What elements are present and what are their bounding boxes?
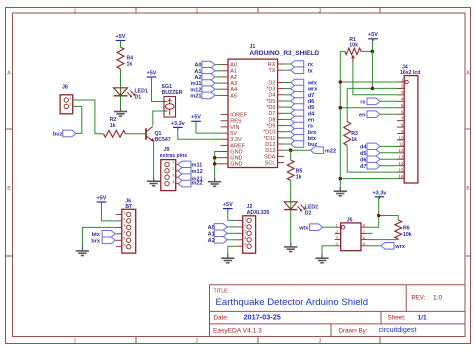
power +3.3v (J1 3.3V pin) [171,121,186,130]
svg-text:en: en [359,112,366,118]
svg-text:buz: buz [53,132,63,138]
potentiometer R1 [345,37,361,62]
svg-text:d4: d4 [308,111,315,117]
resistor R6 [395,220,412,239]
net flag A2 (J2) [208,237,228,244]
svg-text:btx: btx [92,232,101,238]
connector J6 BT [122,199,136,254]
svg-text:BC547: BC547 [155,137,171,143]
svg-text:16: 16 [399,174,404,179]
LED D2 [284,202,318,217]
svg-text:+5V: +5V [223,202,233,208]
transistor Q1 [146,127,171,143]
J9 pin2 stub + net flag m12 [176,168,203,176]
svg-text:1.0: 1.0 [433,295,442,302]
LED D1 [114,88,148,101]
net flag tx (J1 right) [284,67,314,74]
power +5V (R4) [116,34,126,43]
net flag d5 (J4) [360,150,380,157]
svg-text:1k: 1k [351,137,357,143]
power +5V (LCD) [368,32,378,41]
net flag d7 (J4) [360,162,380,169]
svg-text:13: 13 [399,155,404,160]
svg-text:wrx: wrx [394,244,406,250]
J4 pin stubs and numbers [397,77,404,179]
svg-text:circuitdigest: circuitdigest [379,325,417,334]
net flag d4 (J1 right) [284,110,315,117]
svg-text:D2: D2 [268,80,275,86]
svg-text:tx: tx [308,68,314,74]
net flag d4 (J4) [360,143,380,150]
ground (LED2) [290,243,292,246]
svg-text:A: A [466,71,470,77]
ground (J5 pin4) [321,254,323,257]
net flag buz (J1 right) [284,141,318,148]
wire Q1 emitter to ground [153,141,155,180]
wire junction to J5 pin8 [367,216,379,228]
net flag A1 (J1 left) [194,68,220,75]
power +5V (buzzer) [147,71,157,80]
wire buzzer pin2 to Q1 collector [153,111,164,126]
ground (Q1 emitter) [153,177,155,180]
net flag m22 (D13) [310,147,336,154]
svg-text:14: 14 [399,161,404,166]
svg-text:A4: A4 [230,87,237,93]
svg-text:AREF: AREF [230,143,245,149]
svg-text:1: 1 [74,8,77,14]
svg-text:A0: A0 [194,63,201,69]
net flag buz [53,130,76,138]
svg-text:EasyEDA V4.1.3: EasyEDA V4.1.3 [213,327,262,334]
svg-text:5V: 5V [230,131,237,137]
svg-text:+5V: +5V [368,32,378,38]
J5 pin stubs [335,227,367,246]
wire R4 to LED1 [120,69,122,96]
svg-text:d6: d6 [308,99,315,105]
svg-text:A1: A1 [194,69,201,75]
wire J8 pin1 to R2 [73,100,104,134]
svg-text:1k: 1k [127,62,133,68]
svg-text:3: 3 [319,338,322,344]
svg-text:1k: 1k [296,175,302,181]
svg-text:m11: m11 [191,81,202,87]
wire R5 to LED2 [290,181,292,210]
ground (J6) [81,247,83,250]
svg-text:D1: D1 [135,95,142,101]
svg-text:SDA: SDA [264,154,276,160]
svg-text:BT: BT [125,204,133,210]
svg-text:+5V: +5V [147,71,157,77]
net flag d5 (J1 right) [284,104,314,111]
wire J5 pin7 stub [367,232,373,234]
wire J2 pin5 to ground [228,246,237,257]
resistor R5 [287,160,302,181]
svg-text:SCL: SCL [265,160,276,166]
wire +3.3v down to junction [378,197,380,216]
GND rail vertical [339,51,341,190]
svg-text:A: A [7,71,11,77]
svg-text:D7: D7 [268,111,275,117]
net flag A2 (J1 left) [194,74,220,81]
svg-text:2: 2 [196,338,199,344]
J1 left pin stubs and names [221,63,248,168]
svg-text:B: B [466,186,470,192]
svg-text:J1: J1 [249,44,255,50]
wire +3.3v to J1 3.3V [178,127,221,139]
svg-text:m21: m21 [190,94,201,100]
wire J5 pin5 to wrx flag [367,245,381,247]
svg-text:+5V: +5V [97,196,107,202]
svg-text:A2: A2 [194,75,201,81]
svg-text:d5: d5 [360,151,367,157]
resistor R4 [117,47,133,69]
J9 pin1 stub + net flag m11 [176,161,203,168]
wire junction to R6 top [379,216,399,221]
wire R1 left to GND rail [340,50,345,52]
net flag rs (J1 right) [284,122,313,129]
svg-text:wrx: wrx [307,87,319,93]
svg-text:Sheet:: Sheet: [388,315,406,322]
svg-text:VIN: VIN [230,125,239,131]
svg-text:*D3: *D3 [266,87,275,93]
svg-text:1: 1 [74,338,77,344]
svg-text:IOREF: IOREF [230,113,247,119]
svg-text:B: B [7,186,11,192]
net flag rs (J4 pin4) [360,98,380,105]
buzzer SG1 [162,84,183,117]
junction dot (R1/+5V) [371,50,375,54]
ground (J1) [214,178,216,181]
svg-text:brx: brx [91,239,101,245]
svg-text:11: 11 [399,142,404,147]
svg-text:3.3V: 3.3V [230,137,242,143]
svg-text:RES: RES [230,119,242,125]
svg-text:J5: J5 [347,217,353,223]
net flag wrx (J5 pin5) [381,243,406,251]
net flag m12 (J1 left) [190,86,220,93]
ground (J2) [227,254,229,257]
svg-text:2017-03-25: 2017-03-25 [244,313,281,322]
wire R2 to Q1 base [126,133,146,135]
svg-text:d5: d5 [308,105,315,111]
svg-text:Drawn By:: Drawn By: [339,327,368,334]
svg-text:m22: m22 [325,148,336,154]
connector J8 [60,85,73,114]
wire J4 pin5 (GND) [340,107,397,109]
svg-text:ADXL335: ADXL335 [247,210,270,216]
svg-text:GND: GND [230,149,242,155]
svg-text:en: en [308,118,315,124]
svg-text:Date:: Date: [214,315,229,322]
net flag wtx (J5 pin1) [298,224,323,231]
wire J4 pin16 (GND) [340,178,397,180]
power +3.3v (J5) [372,191,387,200]
net flag d6 (J4) [360,156,380,163]
wire J5 pin4 to ground [322,246,335,258]
svg-text:m12: m12 [192,169,203,175]
svg-text:m12: m12 [190,87,201,93]
connector J2 ADXL335 [243,204,270,253]
svg-text:A0: A0 [230,63,237,69]
wire +5V to J2 pin1 [228,209,237,221]
wire +5V to buzzer pin1 [152,77,165,102]
svg-text:A5: A5 [230,93,237,99]
svg-text:m11: m11 [192,163,203,169]
title block [210,285,466,337]
wire R6 bottom to J5 pin6 [367,238,398,241]
power +5V (J1 5V pin) [191,115,201,124]
wire +5V to R4 [120,41,122,48]
net flag A0 (J2) [208,224,228,231]
svg-text:BUZZER: BUZZER [162,90,183,96]
svg-text:ARDUINO_R3_SHIELD: ARDUINO_R3_SHIELD [249,50,319,57]
svg-text:+3.3v: +3.3v [372,191,387,197]
svg-text:2: 2 [196,8,199,14]
ground (LCD) [339,187,341,190]
junction dots GND column [213,156,217,160]
svg-text:+3.3v: +3.3v [171,121,186,127]
svg-text:*D5: *D5 [266,99,275,105]
J2 pin stubs [237,220,243,246]
IC J5 [335,217,365,250]
ground (LED1) [120,108,122,111]
net flag btx (J1 right) [284,135,317,142]
power +5V (J6) [97,196,107,205]
svg-text:Earthquake Detector Arduino Sh: Earthquake Detector Arduino Shield [216,297,369,308]
wire J8 pin2 to buz flag [73,106,82,133]
J1 right pin stubs and names [263,62,284,166]
wire +5V down to R1 junction [371,39,373,52]
svg-text:3: 3 [319,8,322,14]
svg-text:10k: 10k [403,232,412,238]
IC J1 ARDUINO_R3_SHIELD [228,44,319,168]
svg-text:rs: rs [360,99,365,105]
svg-text:brx: brx [308,130,318,136]
net flag en (J1 right) [284,116,315,123]
connector J9 extras pins [160,147,188,191]
svg-text:RX: RX [268,62,276,68]
svg-text:D2: D2 [305,211,312,217]
net flag brx (J1 right) [284,128,317,135]
svg-text:wtx: wtx [307,81,318,87]
svg-text:wtx: wtx [298,225,309,231]
svg-text:*D9: *D9 [266,124,275,130]
J9 pin4 stub + net flag m22 [176,180,203,187]
svg-text:10k: 10k [349,43,358,49]
wire R1 wiper to J4 pin3 [353,62,397,95]
svg-text:extras pins: extras pins [160,153,188,159]
resistor R3 [344,122,358,146]
svg-text:*D6: *D6 [266,105,275,111]
junction dot (+3.3v / J5 / R6) [377,214,381,218]
svg-text:btx: btx [308,136,317,142]
svg-text:D4: D4 [268,93,275,99]
svg-text:*D11: *D11 [264,136,276,142]
svg-text:GND: GND [230,156,242,162]
svg-text:REV:: REV: [412,296,426,302]
net flag wrx (J1 right) [284,85,318,92]
connector J4 16x2 lcd [400,65,420,183]
svg-text:GND: GND [230,162,242,168]
power +5V (J2) [223,202,233,211]
svg-text:16x2 lcd: 16x2 lcd [400,70,420,76]
svg-text:TX: TX [268,68,275,74]
svg-text:A2: A2 [230,75,237,81]
svg-text:D13: D13 [265,148,275,154]
wire D13 down to R5 [290,150,292,160]
net flag en (J4 pin6) [359,111,380,118]
wire R3 bottom to J4 pin15 [347,146,397,173]
J9 pin3 stub + net flag m21 [176,174,203,182]
svg-text:rx: rx [308,62,314,68]
wire J6 pin3 to ground [82,227,115,250]
wire LED2 to ground [290,210,292,247]
wire R1 right to +5V [361,50,372,52]
svg-text:12: 12 [399,148,404,153]
net flag m21 (J1 left) [190,92,220,99]
svg-text:A1: A1 [230,69,237,75]
svg-text:rs: rs [308,124,313,130]
title block text [213,289,442,335]
svg-text:A2: A2 [208,238,215,244]
svg-text:m22: m22 [192,180,203,186]
net flag rx (J1 right) [284,61,314,68]
svg-text:d7: d7 [308,93,315,99]
wire +5V vertical to J4 pin2 [371,51,373,88]
svg-text:J8: J8 [62,85,68,91]
wire J4 pin1 [340,81,397,83]
net flag A1 (J2) [208,230,228,237]
svg-text:1/1: 1/1 [418,315,427,322]
net flag A0 (J1 left) [194,61,220,68]
net flag d7 (J1 right) [284,92,314,99]
wire R3 top to +5V row [346,88,348,121]
svg-text:d6: d6 [360,157,367,163]
wire J4 pin2 (+5V) [347,87,397,89]
wire LED1 to ground [120,96,122,111]
net flag d6 (J1 right) [284,98,314,105]
resistor R2 [104,117,126,137]
wire J1 GND pins to ground [215,152,221,182]
wire D13 to m22 flag [284,149,310,151]
J6 pin stubs [116,215,122,247]
wire wtx to J5 pin1 [323,226,335,228]
net flag btx (J6 pin4) [92,231,115,239]
svg-text:+5V: +5V [116,34,126,40]
svg-text:A3: A3 [230,81,237,87]
wire +5V to J6 pin2 [102,202,116,221]
svg-text:D12: D12 [265,142,275,148]
svg-text:+5V: +5V [191,115,201,121]
svg-text:15: 15 [399,167,404,172]
svg-text:d4: d4 [360,145,367,151]
net flag brx (J6 pin5) [91,237,115,245]
svg-text:1k: 1k [110,123,116,129]
wire +5V to J1 5V [196,121,221,133]
svg-text:*D10: *D10 [263,130,275,136]
net flag wtx (J1 right) [284,79,318,86]
svg-text:10: 10 [399,135,404,140]
svg-text:TITLE:: TITLE: [214,289,230,295]
svg-text:R6: R6 [403,226,410,232]
svg-text:D8: D8 [268,117,275,123]
svg-text:d7: d7 [360,164,367,170]
net flag m11 (J1 left) [191,80,221,87]
junction dot D13 [289,148,293,152]
